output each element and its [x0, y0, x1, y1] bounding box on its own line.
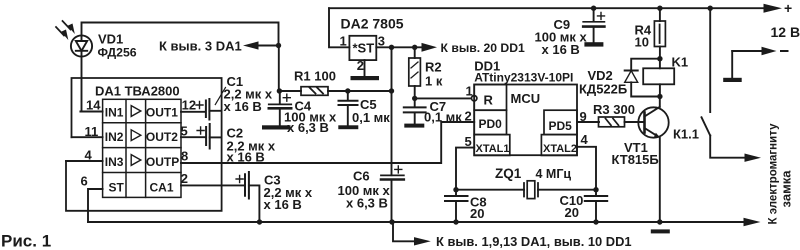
- wire: PD5 pin9 to R3: [577, 121, 599, 123]
- svg-text:+: +: [784, 0, 792, 16]
- svg-text:K1: K1: [672, 55, 689, 70]
- amp triangle row3: [131, 155, 141, 166]
- svg-text:6: 6: [81, 173, 88, 188]
- wire: +5V vertical down through C6: [391, 47, 393, 222]
- ground: under C5: [338, 125, 358, 129]
- wire: pin 11 stub: [72, 136, 103, 138]
- junction: XTAL1 / ZQ1 / C8: [453, 187, 458, 192]
- svg-text:PD5: PD5: [549, 119, 573, 133]
- svg-text:К1.1: К1.1: [673, 127, 699, 142]
- svg-text:R2: R2: [425, 60, 442, 75]
- svg-text:х 6,3 В: х 6,3 В: [346, 196, 388, 211]
- junction: DA2 out to C6 branch: [389, 45, 394, 50]
- svg-text:*ST: *ST: [353, 40, 375, 55]
- svg-text:20: 20: [470, 206, 484, 221]
- junction: C5 top: [345, 88, 350, 93]
- svg-text:КТ815Б: КТ815Б: [612, 152, 659, 167]
- pin1 inversion bubble: [472, 96, 477, 101]
- svg-text:R1 100: R1 100: [294, 69, 336, 84]
- svg-text:PD0: PD0: [479, 117, 503, 131]
- junction: R2 top: [412, 45, 417, 50]
- DA1 inner grid: [103, 99, 181, 197]
- junction: K1.1 to +12V rail: [708, 6, 713, 11]
- minus sign: [781, 50, 788, 52]
- svg-text:0,1 мк: 0,1 мк: [352, 110, 390, 125]
- svg-text:5: 5: [181, 124, 188, 139]
- relay contact K1.1: [702, 8, 762, 162]
- capacitor C1: [196, 88, 226, 120]
- svg-text:х 16 В: х 16 В: [264, 197, 302, 212]
- wire: pin 8 line to DD1 PD0: [181, 122, 474, 163]
- svg-text:К выв. 20 DD1: К выв. 20 DD1: [441, 41, 526, 55]
- wire: XTAL1 pin5: [456, 148, 474, 190]
- wire: arrow to pin3 DA1: [257, 45, 279, 47]
- svg-text:MCU: MCU: [511, 91, 541, 106]
- svg-text:IN1: IN1: [105, 105, 124, 119]
- svg-text:2: 2: [465, 108, 472, 123]
- capacitor C10: [585, 190, 607, 222]
- junction: R2 bottom / C7 / pin1: [412, 96, 417, 101]
- capacitor C7: [404, 98, 426, 123]
- junction: C9 to +12V rail: [591, 6, 596, 11]
- cell PD0: [474, 110, 506, 134]
- svg-text:К выв. 1,9,13 DA1, выв. 10 DD1: К выв. 1,9,13 DA1, выв. 10 DD1: [436, 234, 632, 249]
- svg-text:DA2 7805: DA2 7805: [341, 16, 404, 32]
- junction: C8 to rail: [453, 219, 458, 224]
- ground: VT1 emitter: [651, 229, 670, 233]
- wire: pin 5 stub: [181, 136, 205, 138]
- transistor VT1: [638, 97, 668, 222]
- resistor R2: [409, 47, 421, 98]
- ground: under C7: [404, 124, 424, 128]
- capacitor C5: [339, 91, 358, 125]
- svg-text:9: 9: [580, 109, 587, 124]
- ground: DA2: [351, 76, 380, 80]
- svg-text:х 16 В: х 16 В: [542, 42, 580, 57]
- node: C3 to rail: [257, 219, 262, 224]
- svg-text:10: 10: [635, 35, 649, 50]
- svg-text:х 6,3 В: х 6,3 В: [287, 120, 329, 135]
- svg-text:ST: ST: [109, 181, 125, 195]
- svg-text:R3 300: R3 300: [593, 102, 635, 117]
- amp triangle row1: [131, 106, 141, 117]
- svg-text:ZQ1: ZQ1: [495, 166, 522, 181]
- wire: pin 6 stub and drop to ground rail: [88, 189, 103, 222]
- svg-text:IN3: IN3: [105, 155, 124, 169]
- svg-text:х 16 В: х 16 В: [224, 99, 262, 114]
- svg-text:1: 1: [466, 84, 473, 99]
- node A: pin3 junction: [276, 43, 281, 48]
- capacitor C8: [445, 190, 468, 222]
- wire: XTAL2 pin4: [577, 147, 596, 190]
- junction: R4 / K1 / VD2: [657, 56, 662, 61]
- svg-text:4 МГц: 4 МГц: [536, 167, 572, 181]
- svg-text:4: 4: [85, 147, 93, 162]
- wire: pin3 node down to R1 node: [278, 46, 280, 92]
- wire: ZQ1 line: [456, 189, 596, 191]
- svg-text:Рис. 1: Рис. 1: [1, 232, 51, 250]
- wire: pin 4 stub: [66, 160, 103, 162]
- svg-text:12: 12: [182, 98, 196, 113]
- svg-text:ATtiny2313V-10PI: ATtiny2313V-10PI: [474, 70, 573, 84]
- relay coil K1: [643, 59, 674, 97]
- junction: +5V vertical at R1 line: [389, 88, 394, 93]
- amp triangle row2: [131, 130, 141, 141]
- svg-text:5: 5: [465, 134, 472, 149]
- capacitor C9 electrolytic: [583, 8, 604, 42]
- junction: VT1 emitter to rail: [657, 219, 662, 224]
- svg-text:OUT2: OUT2: [146, 130, 178, 144]
- capacitor C2: [197, 124, 221, 149]
- wire: DA2 pin3 output: [376, 46, 421, 48]
- svg-text:11: 11: [85, 124, 99, 139]
- ground: 12V minus: [723, 78, 742, 82]
- DA1 cell labels: [105, 105, 179, 194]
- wire: pin 14 stub: [80, 111, 102, 113]
- svg-text:C6: C6: [353, 168, 370, 183]
- junction: C10 to rail: [593, 219, 598, 224]
- ground rail bottom: [88, 221, 744, 223]
- op-amp U1: DA1 TBA2800 outer box: [66, 78, 222, 211]
- svg-text:8: 8: [181, 149, 188, 164]
- ground: under C4: [262, 125, 291, 129]
- photodiode VD1: [56, 21, 92, 57]
- svg-text:12 В: 12 В: [771, 24, 800, 40]
- resistor R3: [599, 117, 645, 127]
- svg-text:2: 2: [357, 58, 364, 73]
- junction: R4 to +12V rail: [657, 6, 662, 11]
- svg-text:1: 1: [340, 34, 347, 49]
- resistor R1: [279, 87, 391, 96]
- svg-text:х 16 В: х 16 В: [227, 150, 265, 165]
- MCU DD1 ATtiny2313 box: [474, 85, 577, 156]
- wire: rail drop to label arrow: [393, 222, 414, 241]
- crystal ZQ1: [524, 181, 538, 199]
- junction: R1 left / C4 / pin3 line: [277, 88, 282, 93]
- resistor R4: [654, 8, 665, 59]
- wire: rail down to DA2 pin1: [329, 8, 349, 47]
- terminal minus 12V: [732, 47, 776, 78]
- cell PD5: [544, 110, 577, 134]
- svg-text:4: 4: [581, 132, 589, 147]
- svg-text:0,1 мк: 0,1 мк: [424, 110, 462, 125]
- cell XTAL1: [474, 135, 510, 156]
- wire: pin 12 stub: [181, 111, 205, 113]
- svg-text:14: 14: [86, 98, 101, 113]
- junction: K1 / VD2 / VT1 collector: [657, 94, 662, 99]
- svg-text:К выв. 3 DA1: К выв. 3 DA1: [159, 38, 242, 53]
- svg-text:ФД256: ФД256: [98, 45, 137, 59]
- svg-text:XTAL2: XTAL2: [543, 143, 577, 155]
- cell XTAL2: [541, 135, 577, 156]
- svg-text:IN2: IN2: [105, 130, 124, 144]
- svg-text:OUTP: OUTP: [146, 155, 179, 169]
- svg-text:3: 3: [378, 34, 385, 49]
- junction: XTAL2 / ZQ1 / C10: [593, 187, 598, 192]
- wire: DA2 pin2 to ground: [364, 60, 366, 76]
- wire: VD1 anode down to pin 14: [81, 57, 83, 112]
- ground: under C9: [584, 42, 603, 46]
- capacitor C6 electrolytic: [381, 166, 404, 180]
- svg-text:КД522Б: КД522Б: [579, 81, 627, 96]
- capacitor C3: [236, 172, 259, 222]
- svg-text:CA1: CA1: [150, 181, 174, 195]
- wire: pin 2 stub: [181, 184, 244, 186]
- voltage regulator DA2 7805: [349, 36, 376, 60]
- svg-text:XTAL1: XTAL1: [476, 143, 510, 155]
- svg-text:20: 20: [565, 205, 579, 220]
- svg-text:замка: замка: [779, 170, 794, 208]
- diode VD2: [625, 59, 660, 97]
- power rail +12V top: [329, 7, 764, 9]
- svg-text:1 к: 1 к: [425, 74, 443, 89]
- capacitor C4 electrolytic: [269, 91, 291, 125]
- wire: VD1 top to pin3 rail: [82, 23, 279, 46]
- junction: C6 to rail: [389, 219, 394, 224]
- wire: R2 to DD1 pin1: [415, 97, 472, 99]
- svg-text:VD1: VD1: [98, 32, 123, 47]
- cell R: [474, 85, 506, 111]
- svg-text:OUT1: OUT1: [146, 105, 178, 119]
- svg-text:2: 2: [181, 171, 188, 186]
- svg-text:R: R: [484, 93, 494, 108]
- svg-text:DA1 ТВА2800: DA1 ТВА2800: [95, 83, 180, 98]
